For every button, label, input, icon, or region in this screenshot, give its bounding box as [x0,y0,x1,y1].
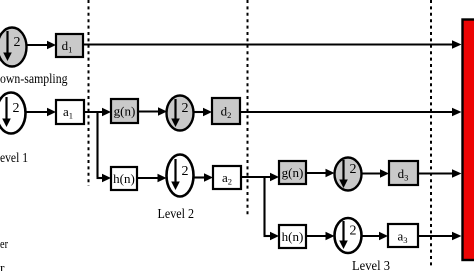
wire h(n)L3 to DS6 [306,235,328,237]
wire DS6 to a3 [362,235,382,237]
svg-text:h(n): h(n) [113,171,135,186]
level 1 boundary dashed line [88,0,90,186]
svg-text:er: er [0,236,9,251]
wire DS4 to a2 [194,176,207,178]
wire a3 to output bar [418,235,454,237]
box d1 [56,34,83,57]
box h(n) level 3 [279,225,306,248]
box a3 [388,224,418,247]
box d2 [212,98,240,124]
level 3 boundary dashed line [430,0,432,266]
svg-text:2: 2 [14,35,21,50]
wire a2 to g(n) level 3 [241,176,272,178]
down-sampler DS3 (gray, level 2 detail) [167,96,194,131]
wire junction down to h(n) level 2 [97,177,105,179]
wire d3 to output bar [418,172,454,174]
svg-text:2: 2 [13,101,20,116]
svg-text:own-sampling: own-sampling [0,71,68,86]
arrowhead into output bar row 2 [452,108,462,117]
wire h(n)L2 to DS4 [137,177,160,179]
wire DS1 to d1 [27,44,50,46]
wire DS5 to d3 [362,172,383,174]
down-sampler DS2 (white, level 1 approx) [0,93,26,134]
wire DS3 to d2 [194,111,206,113]
wire a1 to g(n) level 2 [84,111,104,113]
svg-text:2: 2 [182,101,189,116]
level 2 boundary dashed line [247,0,249,215]
svg-text:2: 2 [182,164,189,179]
svg-text:g(n): g(n) [282,165,304,180]
box d3 [389,161,418,185]
node: junction after a2 [263,176,265,235]
svg-text:evel 1: evel 1 [0,150,28,165]
svg-text:g(n): g(n) [114,104,136,119]
box a1 [56,100,84,124]
down-sampler DS6 (white, level 3 approx) [335,218,362,253]
svg-text:Level 2: Level 2 [158,206,195,221]
wire g(n)L3 to DS5 [306,172,328,174]
svg-text:Level 3: Level 3 [352,258,390,271]
box g(n) level 2 [111,99,138,123]
down-sampler DS1 (gray, level 1 detail) [0,28,27,67]
down-sampler DS4 (white, level 2 approx) [167,155,194,197]
wire DS2 to a1 [26,111,50,113]
arrowhead into output bar row 1 [452,40,462,49]
wire d1 to output bar [83,43,454,45]
output feature vector bar (red, cropped at right) [463,20,474,261]
svg-text:2: 2 [350,224,357,239]
box g(n) level 3 [279,161,306,184]
box a2 [213,166,241,189]
node: junction after a1 [96,111,98,177]
box h(n) level 2 [111,167,137,190]
svg-text:r: r [0,260,5,271]
svg-text:2: 2 [350,162,357,177]
wire junction down to h(n) level 3 [264,235,273,237]
wire g(n)L2 to DS3 [138,110,160,112]
svg-text:h(n): h(n) [282,229,304,244]
down-sampler DS5 (gray, level 3 detail) [335,158,362,191]
wire d2 to output bar [240,111,454,113]
